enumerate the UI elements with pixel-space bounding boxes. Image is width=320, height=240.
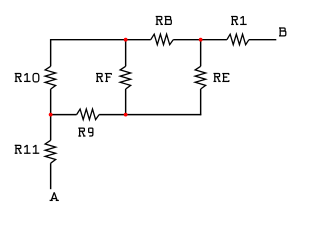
- wire left vertical upper: [50, 39, 52, 66]
- resistor R11: [45, 140, 56, 163]
- resistor R10: [45, 66, 56, 89]
- node A label: [50, 192, 59, 200]
- resistor RF: [120, 66, 130, 89]
- wire bottom horizontal left segment: [51, 114, 77, 116]
- node junction bottom left: [49, 113, 53, 117]
- resistor RB: [151, 34, 174, 45]
- wire left vertical middle: [50, 89, 52, 140]
- node junction top right: [199, 38, 203, 42]
- node B label: [279, 27, 286, 36]
- wire right vertical lower: [200, 89, 202, 115]
- wire bottom horizontal right segment: [99, 114, 201, 116]
- node junction top middle: [124, 38, 128, 42]
- label R11: [15, 145, 40, 154]
- wire middle vertical lower: [125, 89, 127, 115]
- wire top horizontal right segment to B: [249, 39, 276, 41]
- label RF: [96, 73, 112, 82]
- wire top horizontal left segment: [51, 39, 151, 41]
- node junction bottom middle: [124, 113, 128, 117]
- label R9: [78, 128, 93, 137]
- wire left vertical lower to A: [50, 163, 52, 189]
- wire right vertical upper: [200, 40, 202, 67]
- label RE: [214, 73, 230, 82]
- resistor R1: [227, 34, 249, 45]
- wire middle vertical upper: [125, 40, 127, 67]
- resistor RE: [195, 66, 206, 89]
- resistor R9: [77, 109, 100, 120]
- wire top horizontal middle segment: [173, 39, 227, 41]
- label RB: [156, 16, 172, 25]
- label R1: [231, 16, 247, 25]
- label R10: [15, 73, 39, 82]
